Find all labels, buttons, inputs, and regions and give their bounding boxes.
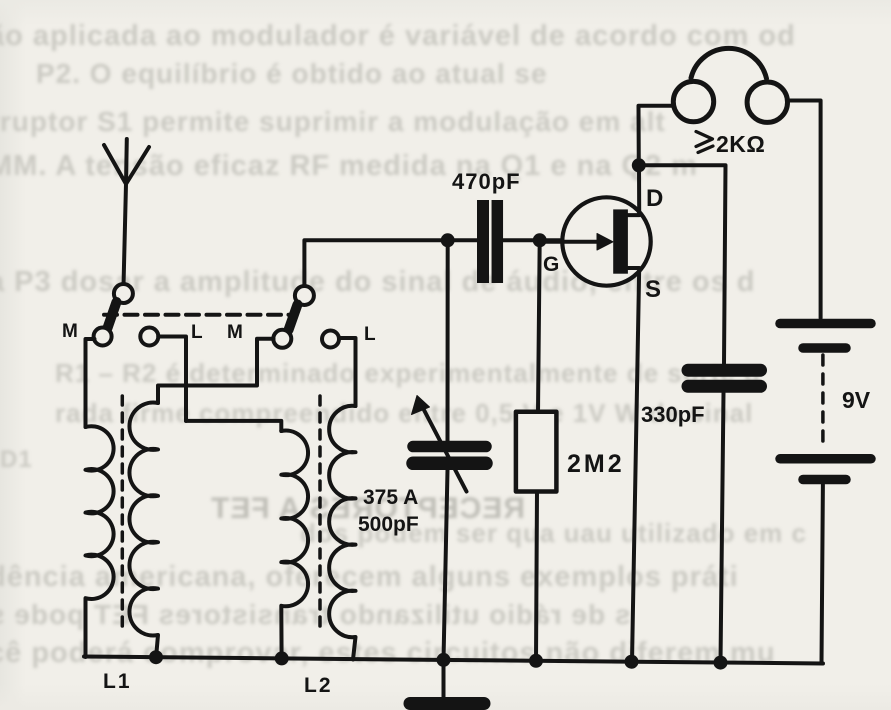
svg-text:375 A: 375 A	[363, 486, 418, 509]
switch S1b lever	[289, 305, 298, 331]
wire S1a L contact to L2 primary feed	[186, 421, 281, 431]
svg-text:L2: L2	[304, 674, 333, 697]
ground stub	[442, 660, 446, 698]
paper tone shading	[0, 0, 26, 710]
node A (junction before C1)	[441, 233, 455, 247]
battery B1 top cell short plate	[803, 343, 846, 353]
capacitor C1 470pF left plate	[477, 200, 489, 283]
Q1 gate lead	[540, 240, 600, 244]
svg-text:470pF: 470pF	[452, 169, 521, 194]
wire variable capacitor branch	[446, 240, 450, 441]
wire drain junction up to headphone left	[639, 106, 674, 166]
wire battery to ground rail	[822, 485, 823, 664]
wire S1b L contact to L2 secondary feed	[339, 338, 356, 406]
wire headphone right to battery	[788, 101, 821, 319]
headphone left earpiece	[673, 81, 713, 121]
switch S1a contact M	[94, 328, 112, 346]
capacitor C3 330pF bottom plate	[688, 380, 761, 393]
headphone right earpiece	[747, 82, 787, 122]
headphone headband arc	[691, 48, 767, 78]
ground rail	[84, 657, 823, 664]
ground symbol bar	[410, 697, 484, 710]
node rail L1 secondary	[149, 650, 163, 664]
svg-text:L: L	[191, 322, 203, 343]
Q1 drain lead	[628, 165, 639, 215]
Q1 source lead	[628, 268, 639, 661]
battery B1 positive plate (top cell long)	[780, 319, 871, 329]
resistor R1 2M2	[516, 412, 557, 492]
wire gate junction to resistor R1	[538, 240, 540, 411]
svg-text:M: M	[227, 322, 243, 343]
wire R1 to ground rail	[536, 492, 537, 662]
switch S1a pole	[114, 284, 133, 303]
battery B1 bottom cell short plate	[803, 475, 846, 485]
svg-text:D: D	[646, 185, 663, 212]
node B (gate junction)	[533, 233, 547, 247]
node rail R1	[529, 654, 543, 668]
ghost bleed-through text rows	[0, 20, 796, 53]
dashed coupling line S1a-S1b	[104, 313, 292, 317]
battery B1 bottom cell long plate	[780, 454, 871, 464]
svg-text:9V: 9V	[842, 387, 871, 413]
node rail L2 primary	[275, 651, 289, 665]
variable capacitor CV 375A/500pF top plate	[413, 441, 486, 453]
svg-text:G: G	[543, 253, 559, 276]
svg-text:2M2: 2M2	[567, 450, 625, 478]
svg-text:M: M	[62, 321, 78, 342]
switch S1a lever	[108, 302, 117, 328]
svg-text:500pF: 500pF	[358, 513, 419, 536]
capacitor C3 330pF top plate	[688, 364, 761, 377]
Q1 gate arrowhead	[597, 234, 613, 251]
variable capacitor CV arrow	[424, 410, 467, 492]
wire top rail from S1b pole to gate	[304, 240, 477, 286]
coil L2 secondary winding	[329, 406, 355, 660]
battery B1 dashed middle	[821, 355, 825, 442]
variable capacitor CV bottom plate	[413, 457, 486, 471]
svg-text:L: L	[364, 324, 376, 345]
wire drain junction to C3 330pF	[639, 165, 726, 363]
node rail C3	[714, 656, 728, 670]
node C (drain junction)	[632, 158, 646, 172]
label >=2K ohm	[696, 132, 713, 153]
svg-text:L1: L1	[103, 670, 132, 693]
wire CV to ground rail	[444, 470, 448, 660]
coil L1 core (dashed)	[121, 396, 125, 629]
node rail source	[625, 655, 639, 669]
coil L2 primary winding	[281, 431, 308, 659]
wire S1b M contact to L1 secondary feed	[158, 339, 274, 403]
capacitor C1 470pF right plate	[492, 200, 504, 283]
transistor Q1 FET body	[562, 197, 650, 285]
svg-text:2KΩ: 2KΩ	[716, 131, 765, 157]
svg-text:S: S	[645, 276, 661, 303]
wire S1a M contact to L1 primary	[86, 339, 95, 427]
switch S1b contact L	[322, 331, 339, 348]
wire C3 to ground rail	[721, 393, 724, 663]
coil L1 primary winding	[86, 426, 114, 657]
coil L2 core (dashed)	[318, 396, 322, 630]
wire C1 to gate	[503, 238, 560, 242]
antenna	[104, 139, 149, 290]
coil L1 secondary winding	[129, 403, 158, 659]
node rail CV	[437, 653, 451, 667]
switch S1b pole	[295, 286, 314, 305]
svg-text:330pF: 330pF	[641, 402, 705, 427]
Q1 channel bar	[613, 209, 628, 273]
switch S1b contact M	[273, 330, 291, 348]
wire S1a L contact down	[158, 337, 186, 421]
switch S1a contact L	[140, 328, 158, 346]
